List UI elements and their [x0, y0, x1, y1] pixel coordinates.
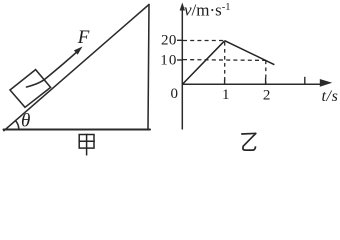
- angle arc theta: [16, 121, 19, 130]
- velocity curve falling segment: [225, 41, 275, 65]
- dashed guide t=2: [265, 61, 267, 85]
- dashed guide v=10: [183, 59, 266, 62]
- x tick t=2: [265, 78, 267, 84]
- x axis: [182, 83, 322, 85]
- dashed guide v=20: [183, 40, 225, 42]
- svg-text:2: 2: [263, 87, 271, 103]
- svg-text:t/s: t/s: [322, 88, 339, 105]
- incline base (ground): [4, 129, 151, 131]
- y tick v=10: [177, 59, 182, 61]
- force F arrowhead: [74, 47, 83, 55]
- force F line: [27, 50, 80, 87]
- x axis arrowhead: [320, 79, 332, 87]
- velocity curve rising segment: [182, 41, 224, 85]
- svg-text:F: F: [77, 27, 90, 48]
- block on incline: [10, 70, 51, 108]
- dashed guide t=1: [224, 42, 226, 84]
- svg-text:v/m·s-1: v/m·s-1: [184, 1, 231, 20]
- incline hypotenuse: [4, 5, 149, 131]
- incline right edge: [148, 5, 149, 130]
- x tick t=1: [224, 80, 226, 85]
- svg-text:θ: θ: [21, 111, 30, 132]
- svg-text:10: 10: [160, 53, 177, 69]
- svg-text:1: 1: [222, 87, 230, 103]
- x tick t=3: [304, 77, 306, 85]
- svg-text:20: 20: [161, 32, 177, 48]
- v-t graph: y axis: [181, 6, 183, 130]
- y tick v=20: [177, 39, 182, 41]
- svg-text:0: 0: [171, 86, 179, 102]
- caption yi (drawn strokes): [241, 133, 256, 150]
- y axis arrowhead: [180, 3, 185, 11]
- caption jia (drawn strokes): [79, 135, 94, 155]
